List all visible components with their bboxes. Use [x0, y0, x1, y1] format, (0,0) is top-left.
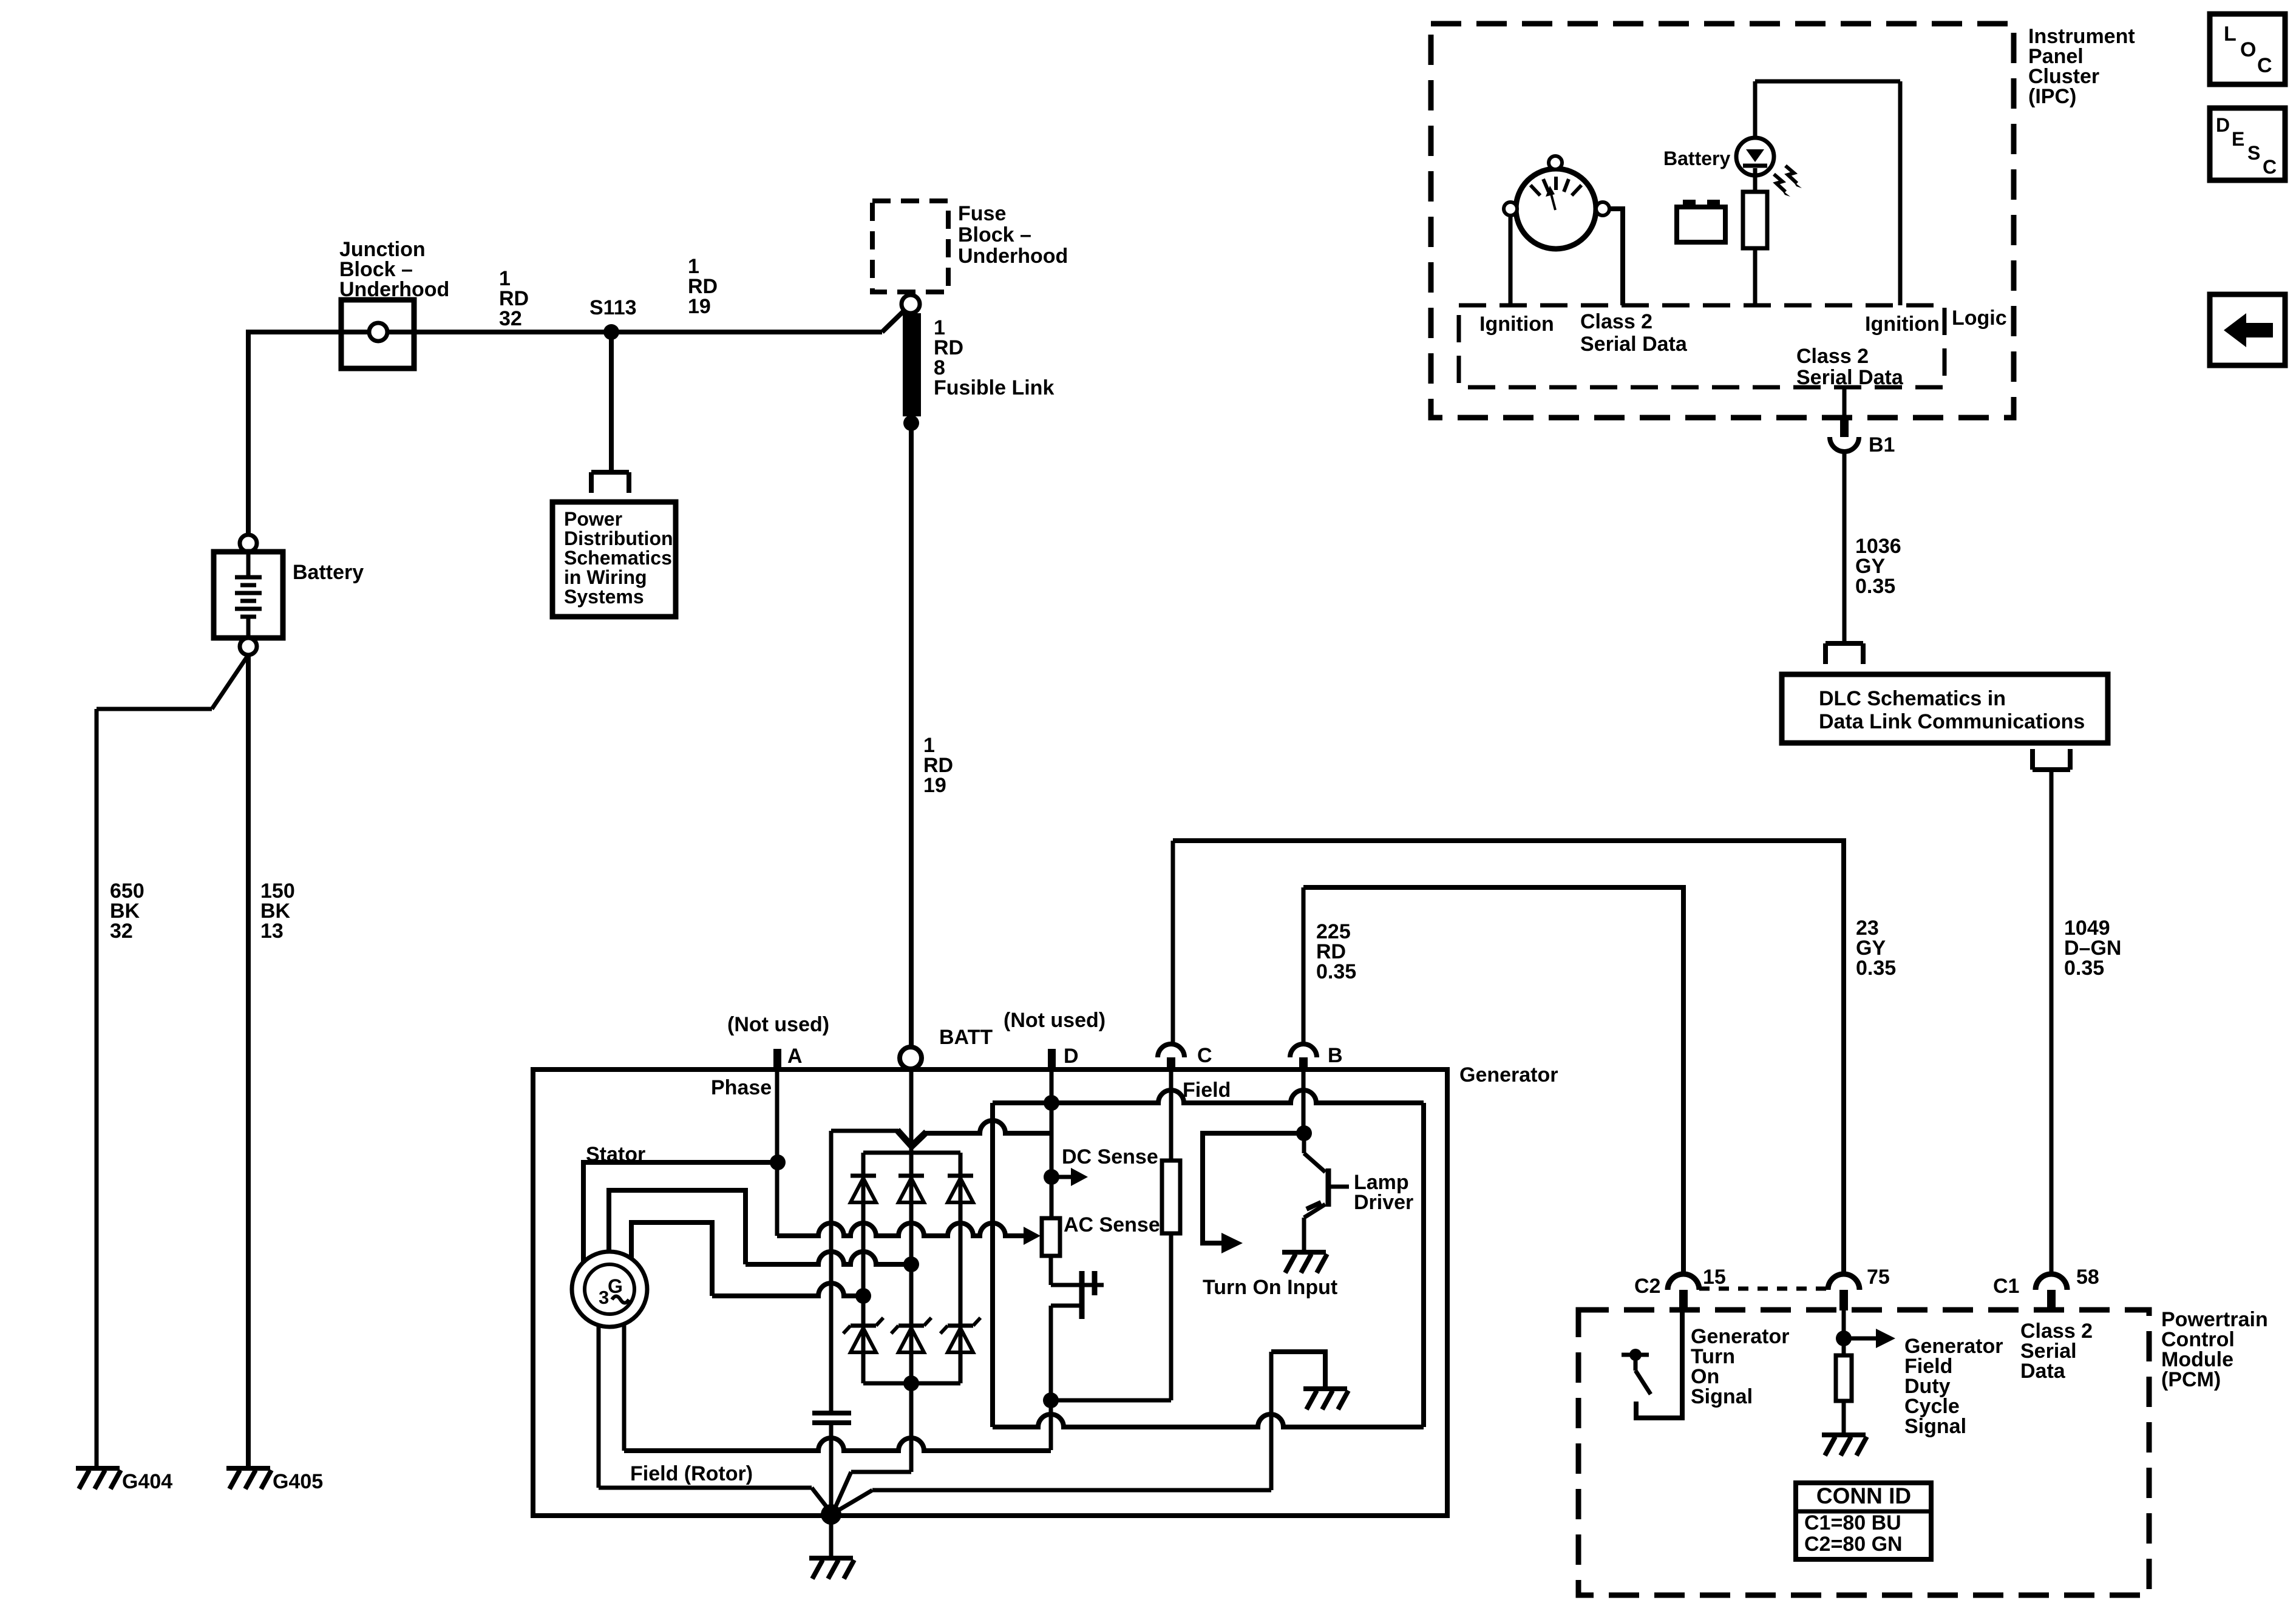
label Class 2 Serial Data right — [1796, 345, 1904, 389]
label Field — [1183, 1079, 1231, 1102]
svg-text:C2: C2 — [1634, 1275, 1660, 1298]
svg-text:C: C — [2257, 54, 2272, 77]
wire 1049 D-GN 0.35 — [2050, 770, 2054, 1275]
label Class 2 Serial Data PCM — [2020, 1320, 2093, 1383]
label 75 — [1867, 1266, 1890, 1289]
zener diode Z2 — [891, 1318, 931, 1352]
stator phase 1 wire — [583, 1162, 778, 1263]
svg-text:G404: G404 — [122, 1470, 172, 1493]
gauge meter — [1504, 156, 1609, 249]
gauge needle — [1546, 186, 1555, 210]
off-page connector to power distribution — [591, 472, 629, 493]
battery B1 left terminal circle — [240, 535, 257, 552]
field resistor — [1162, 1161, 1180, 1233]
label Logic — [1952, 307, 2007, 330]
label Fuse Block - Underhood — [958, 202, 1068, 268]
svg-text:Distribution: Distribution — [564, 527, 673, 549]
stator phase 3 row — [712, 1283, 863, 1296]
zener diode Z3 — [940, 1318, 980, 1352]
svg-text:Schematics: Schematics — [564, 547, 672, 569]
LED light arrows — [1774, 166, 1802, 197]
svg-text:DC Sense: DC Sense — [1062, 1145, 1158, 1168]
junction field return — [1043, 1392, 1059, 1408]
center leg to star — [833, 1472, 911, 1513]
label Stator — [586, 1143, 645, 1166]
DESC legend box — [2210, 108, 2285, 180]
junction stator 3 to left leg — [855, 1288, 871, 1304]
AC sense arrowhead — [1024, 1227, 1041, 1245]
rectifier top left link — [831, 1130, 913, 1148]
svg-text:Ignition: Ignition — [1865, 313, 1940, 336]
svg-text:B1: B1 — [1869, 433, 1895, 456]
lamp driver ground — [1282, 1252, 1327, 1273]
svg-text:Data Link Communications: Data Link Communications — [1819, 710, 2085, 733]
IPC internal loop — [1755, 81, 1900, 305]
svg-text:Fuse: Fuse — [958, 202, 1006, 225]
svg-text:Block –: Block – — [958, 223, 1031, 246]
svg-text:75: 75 — [1867, 1266, 1890, 1289]
wire S113 branch down — [609, 332, 614, 472]
svg-text:32: 32 — [110, 920, 133, 943]
label B1 — [1869, 433, 1895, 456]
svg-text:AC Sense: AC Sense — [1064, 1213, 1160, 1236]
off-page connector to DLC — [1826, 643, 1863, 664]
svg-text:Underhood: Underhood — [958, 245, 1068, 268]
gauge ignition wire — [1509, 215, 1513, 305]
svg-text:58: 58 — [2076, 1266, 2099, 1289]
junction stator 2 to center leg — [903, 1256, 919, 1272]
svg-text:Data: Data — [2020, 1360, 2066, 1383]
class 2 serial data wire to B1 — [1843, 387, 1847, 420]
turn on switch SW1 — [1622, 1349, 1651, 1394]
label Generator — [1459, 1063, 1558, 1086]
label AC Sense — [1064, 1213, 1160, 1236]
pin D stub — [1048, 1049, 1056, 1071]
connector B1 — [1830, 420, 1859, 452]
LED top wire — [1753, 81, 1758, 138]
svg-text:Class 2: Class 2 — [1580, 310, 1652, 333]
wire battery negative to G405 — [246, 655, 251, 1467]
rectifier top right link — [910, 1120, 1051, 1148]
PCM internal ground — [1822, 1435, 1867, 1456]
regulator box bottom edge — [993, 1414, 1424, 1427]
svg-text:Ignition: Ignition — [1479, 313, 1554, 336]
splice S113 — [603, 324, 619, 340]
svg-text:0.35: 0.35 — [1855, 575, 1895, 598]
wire 1 RD 19 down to generator BATT — [909, 423, 914, 1048]
junction DC sense — [1044, 1169, 1059, 1185]
svg-text:Class 2: Class 2 — [1796, 345, 1869, 368]
svg-text:C: C — [2263, 156, 2277, 178]
logic dashed box — [1459, 305, 1944, 387]
star ground junction — [821, 1504, 841, 1525]
connector B at generator — [1290, 887, 1317, 1071]
zener diode Z1 — [843, 1318, 883, 1352]
label C2=80 GN — [1804, 1533, 1903, 1556]
indicator resistor R1 — [1743, 168, 1767, 248]
label Generator Field Duty Cycle Signal — [1904, 1335, 2003, 1438]
stator phase 2 row — [746, 1252, 911, 1264]
wire label 1049 D-GN 0.35 — [2064, 917, 2121, 980]
label Lamp Driver — [1354, 1171, 1413, 1214]
connector C at generator — [1158, 841, 1184, 1071]
wire 23 GY 0.35 field duty cycle — [1173, 841, 1844, 1275]
diode D3 — [948, 1176, 973, 1202]
rectifier left branch — [829, 1131, 834, 1412]
svg-text:32: 32 — [499, 307, 522, 330]
back arrow legend box — [2210, 294, 2285, 365]
label Ignition left — [1479, 313, 1554, 336]
wire label 1 RD 19 — [688, 255, 718, 318]
label C2 — [1634, 1275, 1660, 1298]
rectifier bottom bus — [863, 1381, 960, 1386]
label G405 — [273, 1470, 323, 1493]
field duty cycle wire inside PCM — [1842, 1310, 1846, 1355]
generator box — [533, 1070, 1447, 1516]
pin D internal wire — [1050, 1071, 1054, 1218]
regulator return diagonal — [832, 1490, 872, 1514]
label Instrument Panel Cluster (IPC) — [2028, 25, 2135, 108]
svg-text:L: L — [2224, 22, 2237, 46]
field return to pin C resistor — [1051, 1233, 1171, 1400]
junction phase A and stator — [770, 1154, 786, 1170]
svg-text:S: S — [2247, 142, 2260, 164]
connector C1 pin 58 — [2036, 1274, 2067, 1310]
rotor supply wire — [622, 1324, 627, 1451]
wire label 1 RD 32 — [499, 267, 529, 330]
svg-text:G405: G405 — [273, 1470, 323, 1493]
junction pin D regulator top — [1044, 1095, 1059, 1111]
junction block - underhood box — [341, 300, 414, 368]
svg-text:Battery: Battery — [1663, 147, 1730, 169]
label Turn On Input — [1203, 1276, 1337, 1299]
svg-text:Systems: Systems — [564, 586, 644, 608]
wire battery negative to G404 — [97, 655, 248, 1467]
label BATT — [939, 1026, 993, 1049]
label CONN ID — [1816, 1483, 1911, 1508]
battery cell symbol — [235, 552, 262, 638]
label Field (Rotor) — [630, 1462, 753, 1485]
rectifier center leg — [909, 1069, 914, 1472]
lamp driver transistor Q1 — [1304, 1133, 1349, 1251]
DLC reference box — [1782, 674, 2108, 743]
label A — [787, 1045, 803, 1068]
ground G405 — [226, 1468, 271, 1489]
label C — [1197, 1044, 1212, 1067]
svg-text:Fusible Link: Fusible Link — [934, 376, 1054, 399]
splice below fusible link — [903, 415, 919, 431]
label 58 — [2076, 1266, 2099, 1289]
svg-text:E: E — [2232, 128, 2244, 150]
generator ground symbol — [809, 1558, 854, 1579]
phase wire from pin A to AC sense — [777, 1071, 1024, 1236]
dashed connector line C2 — [1699, 1287, 1828, 1291]
stator phase 2 wire — [609, 1190, 746, 1264]
regulator box top edge — [993, 1090, 1424, 1103]
label DLC Schematics in Data Link Communications — [1819, 687, 2085, 733]
label Phase — [711, 1076, 772, 1099]
ground G404 — [76, 1468, 121, 1489]
wire label 1036 GY 0.35 — [1855, 535, 1901, 598]
junction lamp driver collector — [1296, 1125, 1312, 1141]
label G404 — [122, 1470, 172, 1493]
svg-text:(PCM): (PCM) — [2161, 1368, 2221, 1391]
wire label 225 RD 0.35 — [1316, 920, 1356, 983]
svg-text:D: D — [2216, 114, 2230, 136]
rectifier left leg — [861, 1153, 866, 1383]
label 15 — [1703, 1266, 1726, 1289]
pin D return wire down — [624, 1400, 1051, 1451]
junction center leg bottom bus — [903, 1375, 919, 1391]
generator rotor symbol G3~ — [572, 1252, 647, 1327]
wire label 150 BK 13 — [260, 880, 295, 943]
svg-text:Signal: Signal — [1904, 1415, 1966, 1438]
LOC legend box — [2210, 14, 2285, 84]
gauge class2 wire — [1609, 209, 1623, 305]
regulator box right edge — [1421, 1103, 1426, 1427]
svg-text:Serial Data: Serial Data — [1580, 333, 1688, 356]
pin C internal wire — [1169, 1071, 1173, 1161]
resistor lower wire — [1753, 248, 1758, 305]
svg-text:Turn On Input: Turn On Input — [1203, 1276, 1337, 1299]
regulator inner ground — [1303, 1389, 1348, 1409]
svg-text:D: D — [1064, 1045, 1079, 1068]
connector pin 75 — [1828, 1274, 1860, 1310]
fusible link terminal circle — [902, 295, 920, 313]
label (Not used) pin D — [1004, 1009, 1106, 1032]
PCM pull down resistor R2 — [1836, 1355, 1852, 1401]
label Battery IPC — [1663, 147, 1730, 169]
battery box — [214, 552, 283, 638]
rectifier top bus — [863, 1151, 960, 1155]
wire label 650 BK 32 — [110, 880, 144, 943]
capacitor lower wire — [829, 1423, 834, 1506]
CONN ID table — [1796, 1483, 1931, 1559]
svg-text:in Wiring: in Wiring — [564, 566, 647, 588]
svg-text:(Not used): (Not used) — [727, 1013, 829, 1036]
svg-text:13: 13 — [260, 920, 284, 943]
label Powertrain Control Module (PCM) — [2161, 1308, 2268, 1391]
svg-text:C1: C1 — [1993, 1275, 2019, 1298]
pin A stub — [773, 1049, 781, 1071]
svg-text:0.35: 0.35 — [2064, 957, 2104, 980]
turn on input wire — [1203, 1133, 1304, 1243]
svg-text:Field: Field — [1183, 1079, 1231, 1102]
capacitor to star — [829, 1423, 834, 1514]
powertrain control module dashed box — [1578, 1310, 2149, 1595]
gate capacitor cluster — [1051, 1256, 1104, 1400]
svg-text:Logic: Logic — [1952, 307, 2007, 330]
svg-text:19: 19 — [923, 774, 946, 797]
battery negative terminal circle — [240, 638, 257, 655]
svg-text:(IPC): (IPC) — [2028, 85, 2076, 108]
label D — [1064, 1045, 1079, 1068]
field duty sense arrow — [1844, 1329, 1895, 1348]
label 1 RD 8 Fusible Link — [934, 316, 1054, 399]
svg-text:19: 19 — [688, 295, 711, 318]
stator phase 3 wire — [631, 1222, 712, 1296]
svg-text:S113: S113 — [589, 296, 637, 319]
wire label 23 GY 0.35 — [1856, 917, 1896, 980]
pin B internal wire — [1302, 1071, 1306, 1133]
label C1=80 BU — [1804, 1511, 1901, 1534]
svg-text:G: G — [608, 1275, 623, 1297]
wire label 1 RD 19 vertical — [923, 734, 953, 797]
svg-text:Battery: Battery — [293, 561, 364, 584]
resistor to ground wire — [1842, 1401, 1846, 1434]
turn on signal wire inside PCM — [1636, 1310, 1682, 1418]
svg-text:0.35: 0.35 — [1316, 960, 1356, 983]
label Ignition right — [1865, 313, 1940, 336]
battery telltale symbol — [1677, 200, 1725, 242]
svg-text:C: C — [1197, 1044, 1212, 1067]
label Power Distribution Schematics in Wiring Systems — [564, 508, 673, 608]
label Class 2 Serial Data left — [1580, 310, 1688, 356]
svg-text:Power: Power — [564, 508, 622, 530]
wire 225 RD 0.35 turn on signal — [1303, 887, 1683, 1275]
instrument panel cluster dashed box — [1431, 24, 2014, 418]
power distribution reference box — [552, 502, 676, 617]
label (Not used) pin A — [727, 1013, 829, 1036]
svg-text:Serial Data: Serial Data — [1796, 366, 1904, 389]
svg-text:Phase: Phase — [711, 1076, 772, 1099]
svg-text:Signal: Signal — [1691, 1385, 1753, 1408]
turn on input arrowhead — [1221, 1233, 1243, 1253]
rectifier right leg — [959, 1153, 963, 1383]
label Junction Block - Underhood — [339, 238, 449, 301]
charge indicator LED — [1736, 138, 1774, 175]
svg-text:Field (Rotor): Field (Rotor) — [630, 1462, 753, 1485]
label Battery — [293, 561, 364, 584]
label DC Sense — [1062, 1145, 1158, 1168]
capacitor C1 — [812, 1413, 851, 1423]
label C1 — [1993, 1275, 2019, 1298]
rotor ground wire — [599, 1325, 831, 1513]
label Generator Turn On Signal — [1691, 1325, 1790, 1408]
diode D1 — [851, 1176, 876, 1202]
svg-text:Generator: Generator — [1459, 1063, 1558, 1086]
svg-text:(Not used): (Not used) — [1004, 1009, 1106, 1032]
fusible link F1 — [903, 313, 921, 416]
svg-text:BATT: BATT — [939, 1026, 993, 1049]
svg-text:A: A — [787, 1045, 803, 1068]
gauge ticks — [1530, 177, 1581, 195]
svg-text:3: 3 — [599, 1287, 609, 1308]
generator case ground wire — [829, 1514, 834, 1557]
regulator ground return to star — [872, 1488, 1271, 1493]
junction field duty sense — [1836, 1331, 1852, 1346]
svg-text:Underhood: Underhood — [339, 278, 449, 301]
DC sense arrow — [1051, 1168, 1088, 1186]
AC sense resistor — [1042, 1218, 1060, 1256]
svg-text:B: B — [1328, 1044, 1343, 1067]
off-page connector from DLC — [2033, 749, 2070, 770]
label B — [1328, 1044, 1343, 1067]
diode D2 — [898, 1176, 924, 1202]
svg-text:O: O — [2240, 38, 2256, 61]
svg-text:Driver: Driver — [1354, 1191, 1413, 1214]
fuse block - underhood dashed box — [872, 201, 948, 292]
label S113 — [589, 296, 637, 319]
wire battery positive feed to junction block and S113 — [248, 311, 904, 535]
regulator ground loop — [1271, 1352, 1325, 1490]
svg-text:CONN ID: CONN ID — [1816, 1483, 1911, 1508]
regulator box left edge — [990, 1103, 995, 1427]
connector C2 pin 15 — [1668, 1274, 1699, 1310]
svg-text:C1=80 BU: C1=80 BU — [1804, 1511, 1901, 1534]
wire 1036 GY 0.35 — [1843, 452, 1847, 643]
svg-text:C2=80 GN: C2=80 GN — [1804, 1533, 1903, 1556]
svg-text:0.35: 0.35 — [1856, 957, 1896, 980]
svg-text:DLC Schematics in: DLC Schematics in — [1819, 687, 2006, 710]
BATT terminal circle — [900, 1047, 922, 1069]
svg-text:15: 15 — [1703, 1266, 1726, 1289]
